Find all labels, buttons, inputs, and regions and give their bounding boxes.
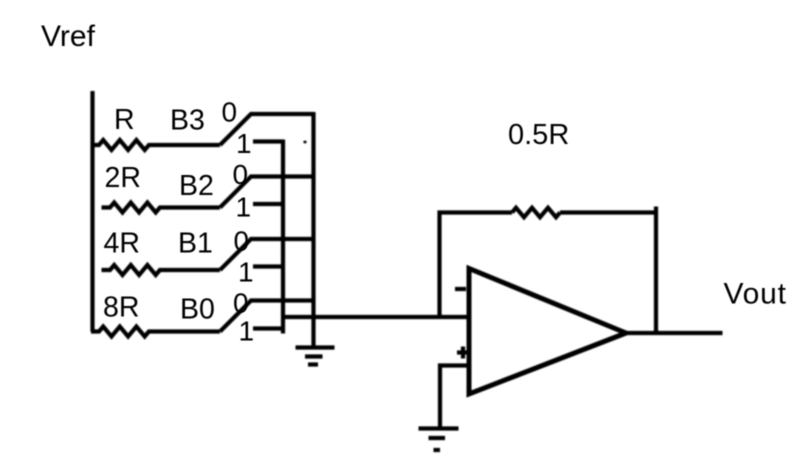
switch B1 1-contact stub <box>253 264 283 268</box>
svg-text:0: 0 <box>234 226 250 257</box>
wire Vref vertical bus <box>90 91 94 332</box>
svg-text:1: 1 <box>236 192 252 223</box>
svg-text:B1: B1 <box>178 228 213 260</box>
switch B3 1-contact stub <box>253 139 283 143</box>
wire 0-contact bus (to ground) <box>311 112 315 347</box>
switch B3 throw (pole to 0 contact) <box>220 114 314 145</box>
svg-text:Vref: Vref <box>41 20 96 53</box>
svg-text:1: 1 <box>236 128 252 159</box>
ground (switch 0 bus) <box>296 348 335 365</box>
svg-text:0: 0 <box>233 159 249 190</box>
svg-text:1: 1 <box>238 257 254 288</box>
svg-text:R: R <box>114 104 135 136</box>
wire op-amp output <box>624 331 723 335</box>
wire feedback left vertical <box>437 211 441 318</box>
wire feedback top right segment <box>560 210 658 214</box>
switch B1 throw (pole to 0 contact) <box>220 239 314 270</box>
svg-text:1: 1 <box>239 316 255 347</box>
switch B0 throw (pole to 0 contact) <box>220 301 314 332</box>
wire 1-contact bus (summing node) <box>281 140 285 334</box>
svg-text:0: 0 <box>233 288 249 319</box>
resistor R (zigzag row 1) <box>91 140 220 150</box>
op-amp U1 triangle <box>469 269 626 395</box>
svg-text:B2: B2 <box>179 170 214 202</box>
op-amp non-inverting input plus sign <box>457 347 469 359</box>
wire feedback top left segment <box>438 210 513 214</box>
artifact dot near B3 1 contact <box>304 141 307 144</box>
svg-text:B0: B0 <box>180 294 215 326</box>
ground (op-amp non-inverting input) <box>419 429 459 451</box>
svg-text:8R: 8R <box>103 292 139 324</box>
svg-text:Vout: Vout <box>724 278 787 311</box>
op-amp inverting input minus sign <box>455 287 466 291</box>
wire non-inverting input to ground <box>440 366 469 428</box>
switch B2 1-contact stub <box>253 202 283 206</box>
svg-text:B3: B3 <box>170 105 205 137</box>
svg-text:0.5R: 0.5R <box>508 119 569 151</box>
wire feedback right vertical to output node <box>654 207 658 334</box>
resistor 0.5R (feedback zigzag) <box>512 208 560 217</box>
svg-text:2R: 2R <box>105 162 141 194</box>
resistor 4R (zigzag row 3) <box>102 265 220 275</box>
wire summing node to op-amp inverting input <box>281 315 469 319</box>
switch B0 1-contact stub <box>253 326 283 330</box>
resistor 2R (zigzag row 2) <box>102 203 220 213</box>
svg-text:0: 0 <box>222 97 238 128</box>
switch B2 throw (pole to 0 contact) <box>220 177 314 208</box>
svg-text:4R: 4R <box>104 228 140 260</box>
resistor 8R (zigzag row 4) <box>91 327 220 337</box>
